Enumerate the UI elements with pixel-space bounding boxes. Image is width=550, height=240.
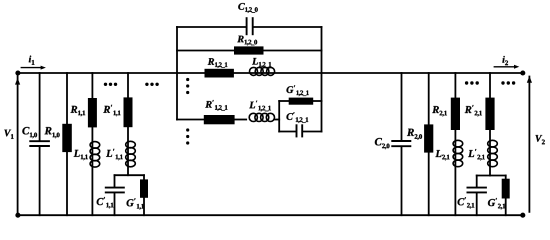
wire G'2,1 leg top	[505, 176, 507, 179]
label V2	[536, 135, 545, 144]
inductor L1,1	[90, 142, 100, 168]
wire parallel loop left side	[278, 101, 280, 132]
label C1,0	[22, 127, 37, 138]
wire L'1,2,1 branch left	[177, 119, 204, 121]
label R2,1	[432, 106, 447, 116]
inductor L1,2,1	[250, 67, 275, 75]
wire C1,2_0 branch left	[177, 26, 246, 28]
label R1,0	[45, 127, 60, 138]
wire R'1,2,1 to L'1,2,1	[235, 119, 247, 121]
label L1,1	[74, 150, 88, 160]
wire G'1,2,1 top leg left	[279, 100, 289, 102]
resistor R1,0	[62, 124, 72, 152]
label L'1,1	[106, 149, 123, 160]
wire C'1,2,1 bottom leg right	[303, 131, 321, 133]
resistor R'1,2,1	[204, 115, 235, 124]
wire split bar C'1,1 G'1,1	[115, 174, 145, 176]
wire G'2,1 leg bottom	[505, 199, 507, 216]
wire R2,0 branch bottom	[428, 153, 430, 216]
arrowhead i1	[41, 66, 46, 70]
wire top rail node1 to node2	[18, 72, 523, 74]
label G'1,2,1	[287, 85, 309, 96]
label C'1,1	[97, 197, 114, 208]
arrowhead V2	[527, 76, 532, 83]
node port2 bottom	[520, 213, 525, 218]
inductor L'1,2,1	[249, 113, 274, 121]
wire G'1,1 leg bottom	[143, 198, 145, 215]
wire L'1,2,1 to parallel loop	[275, 119, 279, 121]
label R'2,1	[465, 105, 482, 116]
wire i2 arrow line	[494, 66, 514, 68]
arrowhead V1	[15, 78, 20, 85]
label C'1,2,1	[287, 112, 309, 123]
resistor R1,2,1	[205, 69, 234, 78]
wire bottom rail	[18, 214, 523, 216]
wire C'1,1 leg top	[114, 175, 116, 187]
label L2,1	[435, 150, 449, 160]
resistor G'1,2,1	[289, 98, 314, 105]
label C'2,1	[458, 197, 475, 208]
capacitor C'2,1	[467, 188, 487, 193]
arrowhead i2	[514, 65, 519, 69]
label R1,1	[71, 106, 86, 116]
ellipsis dots left section b	[145, 83, 159, 86]
label L'2,1	[468, 149, 485, 160]
label R1,2,1	[208, 58, 228, 68]
wire R2,1 branch top	[454, 73, 456, 98]
ellipsis dots right section b	[501, 81, 515, 84]
wire R1,1 branch top	[91, 73, 93, 98]
wire R'2,1 branch top	[489, 73, 491, 98]
resistor R'2,1	[485, 98, 494, 130]
label L'1,2,1	[249, 101, 271, 112]
wire C'2,1 leg bottom	[476, 193, 478, 215]
node port2 top	[520, 70, 525, 75]
ellipsis dots right section a	[465, 81, 479, 84]
ellipsis dots left section a	[104, 83, 117, 86]
wire R1,2_0 branch left	[177, 50, 234, 52]
wire R2,0 branch top	[428, 73, 430, 125]
label i2	[502, 56, 508, 65]
label i1	[29, 56, 35, 65]
wire C2,0 branch bottom	[401, 147, 403, 215]
resistor R2,1	[451, 98, 460, 130]
inductor L2,1	[453, 140, 463, 166]
wire i1 arrow line	[21, 67, 41, 69]
label R'1,2,1	[205, 100, 227, 111]
inductor L'2,1	[488, 140, 498, 166]
resistor R'1,1	[124, 97, 133, 127]
resistor R1,2_0	[234, 46, 264, 54]
label L1,2,1	[252, 58, 271, 68]
capacitor C1,2_0	[247, 17, 253, 35]
wire C'1,1 leg bottom	[114, 193, 116, 215]
label C1,2_0	[238, 3, 257, 13]
resistor R1,1	[88, 98, 97, 127]
label G'1,1	[127, 198, 144, 209]
label G'2,1	[488, 198, 505, 209]
wire R2,1 to L2,1 to bottom rail	[454, 130, 456, 215]
wire R'1,1 branch top	[127, 73, 129, 98]
wire R1,0 branch top	[66, 73, 68, 124]
wire R'1,1 to L'1,1 to split node	[127, 127, 129, 175]
vertical dots middle upper	[186, 78, 189, 94]
wire R1,1 to L1,1 to bottom rail	[91, 127, 93, 215]
wire middle right bus	[321, 27, 323, 132]
label R'1,1	[103, 105, 120, 116]
wire V2 arrow line	[528, 77, 530, 212]
wire C1,2_0 branch right	[254, 26, 322, 28]
label C2,0	[375, 138, 390, 149]
label V1	[4, 130, 13, 139]
capacitor C'1,2,1	[297, 124, 303, 137]
label R1,2_0	[237, 36, 257, 46]
label R2,0	[407, 129, 422, 140]
capacitor C1,0	[29, 141, 50, 146]
wire C1,0 branch bottom	[39, 147, 41, 215]
wire C1,0 branch top	[39, 73, 41, 140]
wire C'2,1 leg top	[476, 176, 478, 187]
vertical dots middle lower	[186, 128, 189, 144]
wire split bar C'2,1 G'2,1	[477, 175, 506, 177]
node port1 bottom	[15, 213, 20, 218]
wire C2,0 branch top	[401, 73, 403, 140]
wire C'1,2,1 bottom leg left	[279, 131, 295, 133]
wire middle left bus	[176, 27, 178, 120]
wire G'1,1 leg top	[143, 175, 145, 179]
resistor G'1,1	[140, 179, 148, 197]
capacitor C'1,1	[105, 188, 125, 193]
wire R1,0 branch bottom	[66, 152, 68, 215]
node port1 top	[15, 70, 20, 75]
wire G'1,2,1 top leg right	[313, 100, 321, 102]
capacitor C2,0	[391, 141, 411, 146]
resistor R2,0	[424, 124, 433, 152]
wire R1,2_0 branch right	[264, 50, 322, 52]
resistor G'2,1	[502, 179, 510, 199]
inductor L'1,1	[126, 141, 136, 167]
wire R'2,1 to L'2,1 to split node	[489, 130, 491, 176]
wire left edge / V1 arrow line	[17, 73, 19, 215]
